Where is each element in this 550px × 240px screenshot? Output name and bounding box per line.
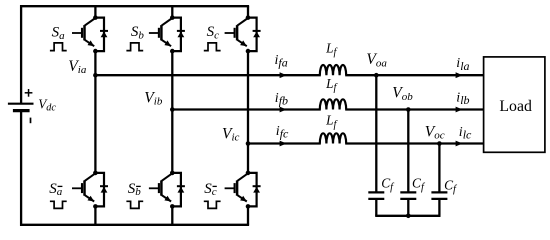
- wire: leg c upper cell to phase node V_ic: [247, 51, 249, 143]
- svg-text:ila: ila: [456, 56, 469, 73]
- wire: diode branch of S_a: [95, 18, 104, 52]
- wire: diode branch of S_b: [172, 18, 181, 52]
- node V_oa: [374, 73, 379, 78]
- wire: diode branch of S_c: [248, 18, 257, 52]
- junction node: emitter of S_c: [246, 49, 251, 54]
- wire: phase a line from V_ia to filter inductor: [95, 74, 320, 76]
- node: capacitor neutral junction: [406, 214, 411, 219]
- label Lf (phase c): [325, 113, 338, 131]
- svg-text:ifc: ifc: [276, 124, 289, 141]
- wire: leg b from top rail to upper cell: [171, 6, 173, 17]
- label V_ia: [68, 58, 87, 76]
- label i_la: [456, 56, 469, 73]
- junction node: emitter of S_a-bar: [93, 204, 98, 209]
- wire: leg a phase node to lower cell: [94, 75, 96, 173]
- battery V_dc positive plate: [8, 103, 34, 105]
- svg-text:ifa: ifa: [275, 53, 288, 70]
- current arrow i_fa: [280, 72, 287, 78]
- current arrow i_lc: [456, 141, 463, 147]
- label S_b: [131, 24, 145, 41]
- label Lf (phase b): [325, 76, 338, 94]
- capacitor Cf (phase c): [431, 192, 447, 199]
- antiparallel diode D_a1: [100, 31, 108, 37]
- wire: V_ob down to capacitor Cf b: [407, 110, 409, 193]
- node V_ia: [93, 73, 98, 78]
- label i_fa: [275, 53, 288, 70]
- transistor S_c (IGBT): [225, 18, 248, 46]
- junction node: collector of S_a-bar: [93, 171, 98, 176]
- wire: leg a upper cell to phase node V_ia: [94, 51, 96, 75]
- junction node: collector of S_c-bar: [246, 171, 251, 176]
- transistor S_b-bar (IGBT): [149, 173, 172, 201]
- node V_ob: [406, 107, 411, 112]
- wire: leg c phase node to lower cell: [247, 144, 249, 173]
- wire: phase c line from inductor to load: [345, 142, 483, 144]
- label V_ob: [392, 85, 413, 103]
- label V_oa: [366, 51, 387, 69]
- label S_c: [207, 24, 220, 41]
- wire: negative DC bus (bottom rail): [20, 224, 249, 226]
- wire: leg a from top rail to upper cell: [94, 6, 96, 17]
- transistor S_c-bar (IGBT): [225, 173, 248, 201]
- gate pulse symbol for S_c-bar: [204, 201, 221, 208]
- transistor S_a (IGBT): [72, 18, 95, 46]
- battery minus tick: [30, 118, 32, 124]
- wire: leg b phase node to lower cell: [171, 110, 173, 173]
- label S_a-bar: [49, 181, 63, 198]
- wire: capacitor Cf c to neutral bus: [438, 199, 440, 216]
- junction node: emitter of S_b-bar: [170, 204, 175, 209]
- antiparallel diode D_a2: [100, 186, 108, 192]
- wire: capacitor neutral bus: [375, 215, 440, 217]
- label Cf (phase b): [412, 176, 426, 194]
- current arrow i_fb: [280, 107, 287, 113]
- wire: leg b upper cell to phase node V_ib: [171, 51, 173, 109]
- gate pulse symbol for S_a-bar: [50, 201, 67, 208]
- junction node: emitter of S_a: [93, 49, 98, 54]
- label Lf (phase a): [325, 40, 338, 58]
- junction node: collector of S_c: [246, 15, 251, 20]
- current arrow i_fc: [280, 141, 287, 147]
- wire: capacitor Cf b to neutral bus: [407, 199, 409, 216]
- antiparallel diode D_b2: [177, 186, 185, 192]
- label i_fc: [276, 124, 289, 141]
- label V_ib: [144, 89, 163, 107]
- junction node: collector of S_a: [93, 15, 98, 20]
- label i_lb: [456, 91, 469, 108]
- label V_dc: [38, 96, 56, 113]
- wire: phase b line from V_ib to filter inductor: [172, 108, 320, 110]
- capacitor Cf (phase a): [368, 192, 384, 199]
- inductor Lf (phase c): [320, 133, 346, 143]
- current arrow i_la: [456, 72, 463, 78]
- antiparallel diode D_c2: [253, 186, 261, 192]
- inductor Lf (phase b): [320, 99, 346, 109]
- label S_c-bar: [204, 181, 217, 198]
- wire: phase a line from inductor to load: [345, 74, 483, 76]
- wire: leg b lower cell to bottom rail: [171, 206, 173, 224]
- label V_oc: [425, 123, 445, 141]
- label S_a: [52, 25, 66, 42]
- wire: V_oa down to capacitor Cf a: [375, 75, 377, 192]
- gate pulse symbol for S_b-bar: [126, 201, 143, 208]
- label Cf (phase a): [381, 176, 395, 194]
- wire: positive DC bus (top rail): [20, 5, 249, 7]
- svg-text:Load: Load: [499, 98, 532, 115]
- wire: DC source bottom lead: [20, 111, 22, 226]
- wire: diode branch of S_b-bar: [172, 173, 181, 207]
- label Load: [499, 98, 532, 115]
- gate pulse symbol for S_c: [204, 43, 221, 51]
- svg-text:ilb: ilb: [456, 91, 469, 108]
- node V_oc: [437, 141, 442, 146]
- wire: diode branch of S_c-bar: [248, 173, 257, 207]
- capacitor Cf (phase b): [400, 192, 416, 199]
- label S_b-bar: [128, 181, 142, 198]
- junction node: collector of S_b-bar: [170, 171, 175, 176]
- svg-text:ilc: ilc: [459, 125, 472, 142]
- node V_ib: [170, 107, 175, 112]
- wire: phase c line from V_ic to filter inductor: [248, 142, 321, 144]
- label Cf (phase c): [444, 177, 458, 195]
- wire: diode branch of S_a-bar: [95, 173, 104, 207]
- inductor Lf (phase a): [320, 65, 346, 75]
- gate pulse symbol for S_a: [50, 43, 67, 51]
- gate pulse symbol for S_b: [126, 43, 143, 51]
- wire: leg c lower cell to bottom rail: [247, 206, 249, 224]
- svg-text:ifb: ifb: [275, 91, 288, 108]
- transistor S_a-bar (IGBT): [72, 173, 95, 201]
- label V_ic: [222, 125, 240, 143]
- node V_ic: [246, 141, 251, 146]
- label i_lc: [459, 125, 472, 142]
- junction node: collector of S_b: [170, 15, 175, 20]
- current arrow i_lb: [456, 107, 463, 113]
- antiparallel diode D_c1: [253, 31, 261, 37]
- junction node: emitter of S_b: [170, 49, 175, 54]
- battery V_dc negative plate: [13, 109, 30, 112]
- wire: phase b line from inductor to load: [345, 108, 483, 110]
- load box: [484, 57, 545, 152]
- transistor S_b (IGBT): [149, 18, 172, 46]
- wire: DC source top lead: [20, 5, 22, 104]
- wire: capacitor Cf a to neutral bus: [375, 199, 377, 216]
- antiparallel diode D_b1: [177, 31, 185, 37]
- wire: V_oc down to capacitor Cf c: [438, 144, 440, 193]
- label i_fb: [275, 91, 288, 108]
- battery plus sign: [25, 89, 33, 97]
- wire: leg c from top rail to upper cell: [247, 6, 249, 17]
- wire: leg a lower cell to bottom rail: [94, 206, 96, 224]
- junction node: emitter of S_c-bar: [246, 204, 251, 209]
